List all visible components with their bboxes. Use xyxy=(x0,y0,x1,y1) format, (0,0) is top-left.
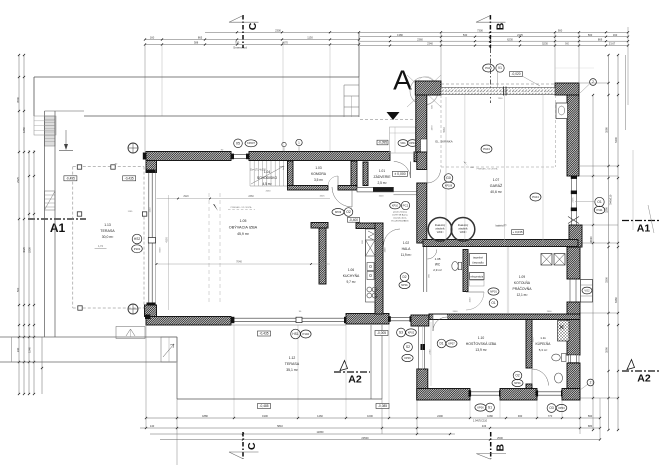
svg-text:1.03: 1.03 xyxy=(315,166,321,170)
svg-text:KOTOLŇA: KOTOLŇA xyxy=(514,281,531,285)
svg-text:2,9 m²: 2,9 m² xyxy=(433,268,442,272)
svg-text:KÚPEĽŇA: KÚPEĽŇA xyxy=(536,341,552,346)
svg-text:D1: D1 xyxy=(439,342,443,346)
entry mat xyxy=(357,187,394,192)
svg-text:4590: 4590 xyxy=(166,237,169,243)
svg-text:WC: WC xyxy=(435,263,441,267)
svg-text:1.04: 1.04 xyxy=(264,170,270,174)
svg-text:EL. SKRINKA: EL. SKRINKA xyxy=(435,140,452,144)
svg-text:2300: 2300 xyxy=(275,28,281,32)
svg-text:500: 500 xyxy=(16,287,20,292)
svg-text:piestra Snowa: piestra Snowa xyxy=(393,211,408,214)
svg-text:HS2: HS2 xyxy=(134,237,140,241)
svg-text:KP06: KP06 xyxy=(404,356,411,360)
black triangle entry marker xyxy=(387,112,400,120)
right wall kotolna upper xyxy=(567,247,580,279)
svg-text:900: 900 xyxy=(558,28,563,32)
komora bottom wall xyxy=(288,186,329,191)
svg-text:45,9 m²: 45,9 m² xyxy=(237,232,250,236)
svg-text:A1: A1 xyxy=(50,221,66,235)
svg-text:1.13: 1.13 xyxy=(104,223,111,227)
svg-text:2360: 2360 xyxy=(417,37,423,41)
svg-text:D2: D2 xyxy=(402,275,406,279)
bathroom sink xyxy=(555,373,563,383)
wall: entry right corner piece xyxy=(414,152,423,162)
labels D2 NP01 hala xyxy=(400,273,409,282)
komora right wall xyxy=(351,161,357,186)
svg-text:A2: A2 xyxy=(637,373,651,385)
svg-text:Smerosud: Smerosud xyxy=(233,46,247,50)
svg-text:TERASA: TERASA xyxy=(285,362,300,366)
svg-text:680: 680 xyxy=(588,424,593,428)
leader circle 1b xyxy=(296,139,302,145)
svg-text:1000: 1000 xyxy=(367,414,373,418)
svg-text:B: B xyxy=(495,444,507,452)
svg-text:2050: 2050 xyxy=(420,207,422,213)
svg-text:O2: O2 xyxy=(515,374,519,378)
labels O1 P111 right xyxy=(595,197,604,206)
svg-text:05: 05 xyxy=(236,142,240,146)
front door leaf and swing xyxy=(389,153,391,162)
svg-text:2,5 m²: 2,5 m² xyxy=(377,181,386,185)
bottom wall segment A xyxy=(417,389,470,401)
svg-text:GARÁŽ: GARÁŽ xyxy=(490,183,503,188)
wc door arc xyxy=(427,250,437,260)
kitchen top wall bar xyxy=(356,223,383,229)
P104 circle b xyxy=(530,193,541,201)
bottom dimension chain xyxy=(146,417,600,419)
ground line long xyxy=(0,336,177,338)
svg-text:1990: 1990 xyxy=(385,247,387,253)
svg-text:1.02: 1.02 xyxy=(403,241,409,245)
door kitchen-hala arc xyxy=(384,229,401,246)
svg-text:4025: 4025 xyxy=(22,247,26,253)
svg-text:KUCHYŇA: KUCHYŇA xyxy=(343,274,360,278)
svg-text:2325: 2325 xyxy=(16,177,20,183)
section marker A2 inner xyxy=(334,371,370,373)
svg-text:zásobník: zásobník xyxy=(435,229,445,231)
svg-text:1900: 1900 xyxy=(547,311,553,313)
hostovska bottom-left corner wall xyxy=(417,369,428,400)
svg-text:14630: 14630 xyxy=(589,236,593,244)
steps left of terrace xyxy=(161,337,177,362)
label 05 KP207 xyxy=(234,139,243,148)
section marker C bottom xyxy=(242,432,244,459)
terrace 1.12 outline xyxy=(176,337,178,399)
garage top-right pillar xyxy=(555,83,579,95)
svg-text:V200 l: V200 l xyxy=(460,232,467,234)
section marker A1 left xyxy=(28,218,86,220)
column circle bottom xyxy=(128,304,138,314)
svg-text:KP06: KP06 xyxy=(477,405,484,409)
svg-text:750: 750 xyxy=(235,41,240,45)
svg-text:1600: 1600 xyxy=(379,196,385,198)
svg-text:1130: 1130 xyxy=(307,36,313,40)
leader 2 top right xyxy=(590,79,597,86)
svg-text:bivalentný: bivalentný xyxy=(458,224,469,227)
svg-text:2400: 2400 xyxy=(453,311,459,313)
elevation -0,485 xyxy=(258,404,271,409)
garage left wall lower xyxy=(417,183,427,243)
svg-text:7300: 7300 xyxy=(498,98,504,100)
stove burners xyxy=(367,287,372,292)
svg-text:-0,435: -0,435 xyxy=(125,176,134,180)
left outer wall strip xyxy=(45,116,56,146)
svg-text:3500: 3500 xyxy=(16,97,20,103)
svg-text:3590: 3590 xyxy=(605,347,609,353)
svg-text:2840: 2840 xyxy=(323,257,325,263)
svg-text:V200 l: V200 l xyxy=(437,232,444,234)
svg-text:1.11: 1.11 xyxy=(540,336,546,340)
svg-text:500: 500 xyxy=(588,33,593,37)
svg-text:1970: 1970 xyxy=(432,125,434,131)
svg-text:30,0 m²: 30,0 m² xyxy=(102,235,114,239)
exterior steps right of roofline xyxy=(344,84,359,86)
rekuperacia box xyxy=(470,273,485,280)
svg-text:čerpadlo: čerpadlo xyxy=(472,261,484,265)
svg-text:5230: 5230 xyxy=(542,42,548,46)
svg-text:40,6 m²: 40,6 m² xyxy=(490,190,502,194)
svg-text:2780: 2780 xyxy=(430,349,432,355)
svg-text:13,9 m²: 13,9 m² xyxy=(475,348,487,352)
svg-text:VO2: VO2 xyxy=(584,288,590,292)
svg-text:KP10: KP10 xyxy=(392,204,399,207)
svg-text:O1: O1 xyxy=(491,301,495,305)
door D2 arc xyxy=(532,369,549,386)
svg-text:C: C xyxy=(246,442,258,450)
svg-text:11,9 m²: 11,9 m² xyxy=(401,253,412,257)
label VD1 KP04 xyxy=(398,140,408,147)
svg-text:4670: 4670 xyxy=(282,41,288,45)
bottom strip wall xyxy=(429,314,580,320)
left dimension chain xyxy=(18,55,20,394)
garage bottom wall xyxy=(423,240,578,247)
VO2 door box xyxy=(581,280,593,303)
svg-text:HOSŤOVSKÁ IZBA: HOSŤOVSKÁ IZBA xyxy=(466,341,497,346)
svg-text:+ 0,035: + 0,035 xyxy=(512,230,522,234)
svg-text:1.94(7)C110: 1.94(7)C110 xyxy=(473,419,488,423)
kitchen appliance strip xyxy=(366,229,376,302)
svg-text:240: 240 xyxy=(16,347,20,352)
wall: kitchen bottom xyxy=(346,314,389,325)
HS1 sliding door opening xyxy=(234,317,346,319)
svg-text:1380: 1380 xyxy=(397,33,403,37)
top dimension chain xyxy=(205,31,628,33)
svg-text:KP03: KP03 xyxy=(558,406,565,410)
svg-text:590: 590 xyxy=(588,414,593,418)
svg-text:2: 2 xyxy=(590,381,592,385)
labels KP10 PC1 xyxy=(390,202,401,209)
svg-text:KOMORA: KOMORA xyxy=(311,172,327,176)
svg-text:-0,005: -0,005 xyxy=(377,331,386,335)
svg-text:± 0,000: ± 0,000 xyxy=(394,172,405,176)
roof overhang outline upper left xyxy=(34,76,359,78)
svg-text:bivalentný: bivalentný xyxy=(435,224,446,227)
svg-text:2490: 2490 xyxy=(437,414,443,418)
svg-text:O1: O1 xyxy=(597,200,602,204)
svg-text:O3: O3 xyxy=(549,406,554,410)
exterior ladder left xyxy=(45,191,56,210)
svg-text:1560: 1560 xyxy=(470,297,472,303)
svg-text:-0,400: -0,400 xyxy=(349,218,358,222)
hostovska left wall thin xyxy=(418,326,420,371)
svg-text:P101: P101 xyxy=(134,247,141,251)
svg-text:11950: 11950 xyxy=(316,430,324,434)
svg-text:1250: 1250 xyxy=(22,127,26,133)
kitchen right wall xyxy=(375,223,383,314)
right wall kotolna lower xyxy=(567,302,580,314)
svg-text:KP207: KP207 xyxy=(247,141,255,145)
svg-text:KP04: KP04 xyxy=(409,141,416,145)
wc right wall xyxy=(463,250,468,292)
svg-text:1.12: 1.12 xyxy=(289,356,296,360)
svg-text:5,3 m²: 5,3 m² xyxy=(539,348,548,352)
dimension extension lines xyxy=(358,32,360,77)
svg-text:TERASA: TERASA xyxy=(100,229,115,233)
svg-text:930: 930 xyxy=(518,414,523,418)
labels P103 V1 xyxy=(483,64,495,72)
svg-text:2: 2 xyxy=(592,80,594,84)
garage interior vert dim xyxy=(445,97,447,238)
svg-text:1.10: 1.10 xyxy=(478,336,485,340)
svg-text:P104: P104 xyxy=(483,147,490,151)
svg-text:S2: S2 xyxy=(406,345,410,349)
svg-text:zásobník: zásobník xyxy=(458,229,468,231)
svg-text:O2: O2 xyxy=(346,210,351,214)
svg-text:V1: V1 xyxy=(498,66,502,70)
bottom wall segment B xyxy=(500,389,537,401)
garage top-left pillar xyxy=(415,81,441,95)
svg-text:2630: 2630 xyxy=(266,191,272,193)
section marker B top xyxy=(489,15,491,48)
svg-text:C: C xyxy=(247,22,259,30)
section marker B bottom xyxy=(490,432,492,459)
svg-text:4050: 4050 xyxy=(450,390,456,392)
svg-text:-0,485: -0,485 xyxy=(259,404,268,408)
svg-text:770: 770 xyxy=(548,414,553,418)
svg-text:OBÝVACIA IZBA: OBÝVACIA IZBA xyxy=(229,226,258,230)
komora door arc xyxy=(337,176,339,186)
equipment squares kotolna xyxy=(541,254,552,266)
svg-text:tepelné: tepelné xyxy=(473,256,483,260)
wall: living room left bottom corner xyxy=(145,305,157,317)
labels HS1 P102 xyxy=(291,329,301,339)
detail swirl circles xyxy=(410,77,438,105)
svg-text:388: 388 xyxy=(194,41,199,45)
right wall bathroom upper xyxy=(567,320,580,356)
svg-text:530: 530 xyxy=(463,33,468,37)
svg-text:-0,495: -0,495 xyxy=(66,176,75,180)
svg-text:2175: 2175 xyxy=(517,33,523,37)
svg-text:1460: 1460 xyxy=(317,414,323,418)
svg-text:KP09: KP09 xyxy=(335,210,342,214)
labels S3 KP02 xyxy=(397,328,406,337)
door D1 arc xyxy=(432,314,434,331)
svg-text:5400: 5400 xyxy=(614,137,618,143)
P104 circle a xyxy=(481,145,492,153)
svg-text:35,1 m²: 35,1 m² xyxy=(286,368,298,372)
el.skrinka niche xyxy=(421,139,427,152)
svg-text:PRIEVAN - VZ CESTA: PRIEVAN - VZ CESTA xyxy=(231,206,252,209)
wall hostovska-kupelna xyxy=(526,320,532,369)
svg-text:S1: S1 xyxy=(488,406,492,410)
svg-text:23,67: 23,67 xyxy=(609,42,616,46)
bathroom toilet xyxy=(552,354,561,361)
column circle top xyxy=(128,143,138,153)
svg-text:23500: 23500 xyxy=(361,436,369,440)
svg-text:P102: P102 xyxy=(303,332,310,336)
svg-text:5810: 5810 xyxy=(277,424,283,428)
svg-text:7940/110: 7940/110 xyxy=(609,194,613,205)
terrace 1.13 dashed boundary xyxy=(73,166,144,168)
svg-text:G0: G0 xyxy=(446,176,451,180)
wall: top wall to entry xyxy=(249,152,390,161)
light guide near top-right pillar xyxy=(555,67,594,69)
svg-text:LUTE SE Aurna: LUTE SE Aurna xyxy=(392,214,408,217)
svg-text:160: 160 xyxy=(150,36,155,40)
kitchen island T-wall xyxy=(311,223,328,229)
svg-text:1525: 1525 xyxy=(533,337,535,343)
door 05 gap jambs xyxy=(231,154,249,156)
labels O2 NP01 xyxy=(513,371,522,380)
svg-text:1.07: 1.07 xyxy=(493,178,500,182)
door O2 living-hala xyxy=(351,187,353,207)
zadverie left wall xyxy=(363,162,368,186)
svg-text:-0,095: -0,095 xyxy=(378,141,387,145)
leader circle 1a xyxy=(282,142,286,146)
svg-text:1.08: 1.08 xyxy=(435,257,441,261)
door arc into kotolna xyxy=(466,291,484,293)
labels KP06 S1 bottom xyxy=(475,404,486,411)
svg-text:1880: 1880 xyxy=(202,414,208,418)
svg-text:2250: 2250 xyxy=(28,247,32,253)
svg-text:NP01: NP01 xyxy=(401,283,408,287)
svg-text:1080: 1080 xyxy=(487,414,493,418)
svg-text:PC1: PC1 xyxy=(403,204,409,208)
svg-text:HS1: HS1 xyxy=(292,332,298,336)
svg-text:P111: P111 xyxy=(596,208,603,212)
dashed airflow line xyxy=(228,209,255,211)
svg-text:1.06: 1.06 xyxy=(348,268,354,272)
garage left wall upper xyxy=(416,95,427,152)
entry arrow left xyxy=(65,130,67,147)
svg-text:1,74: 1,74 xyxy=(98,245,103,248)
svg-text:A2: A2 xyxy=(348,374,362,386)
svg-text:865: 865 xyxy=(198,36,203,40)
svg-text:1200: 1200 xyxy=(572,142,574,148)
garage right wall with niche xyxy=(567,95,579,176)
svg-text:6460: 6460 xyxy=(614,297,618,303)
garage right window section xyxy=(571,177,573,225)
svg-text:3,5 m²: 3,5 m² xyxy=(314,178,323,182)
svg-text:5980: 5980 xyxy=(443,127,446,133)
svg-text:2175: 2175 xyxy=(573,197,575,203)
svg-text:3425: 3425 xyxy=(320,196,326,198)
svg-text:6000: 6000 xyxy=(160,247,162,253)
label KP09 O2 xyxy=(332,209,344,216)
O1 circle xyxy=(489,299,498,308)
S3 window opening xyxy=(389,316,411,318)
svg-text:2500: 2500 xyxy=(497,436,503,440)
svg-text:2340: 2340 xyxy=(427,42,433,46)
svg-text:SCHODISKO: SCHODISKO xyxy=(257,176,278,180)
svg-text:batéria??: batéria?? xyxy=(496,224,507,228)
svg-text:KP02: KP02 xyxy=(408,330,415,334)
porch canopy outline xyxy=(390,127,416,153)
svg-text:4,5 m²: 4,5 m² xyxy=(262,182,271,186)
buffer tanks xyxy=(428,218,452,242)
wc left wall thin xyxy=(423,247,425,292)
section marker A1 right xyxy=(622,220,660,222)
elevation -0,435 xyxy=(123,176,136,181)
garage left wall mid + G0 door gap xyxy=(417,152,427,170)
bottom wall segment C xyxy=(562,389,580,401)
svg-text:B: B xyxy=(494,22,506,30)
wc toilet xyxy=(452,262,458,271)
svg-text:A1: A1 xyxy=(637,223,651,235)
elevation -0,495 xyxy=(64,176,77,181)
labels G0 KP108 xyxy=(444,174,453,183)
svg-text:9,7 m²: 9,7 m² xyxy=(346,280,355,284)
svg-text:433: 433 xyxy=(482,424,487,428)
svg-text:1.05: 1.05 xyxy=(240,219,247,223)
svg-text:1.09: 1.09 xyxy=(519,275,525,279)
svg-text:1.01: 1.01 xyxy=(379,169,385,173)
svg-text:1080: 1080 xyxy=(518,390,524,392)
svg-text:2920: 2920 xyxy=(183,195,189,198)
labels O3 KP03 xyxy=(547,404,556,413)
svg-text:2360: 2360 xyxy=(248,195,254,198)
svg-text:PRÁČOVŇA: PRÁČOVŇA xyxy=(512,286,532,291)
elevation -0,005 xyxy=(375,331,388,336)
svg-text:1540: 1540 xyxy=(28,347,32,353)
zadverie step lines xyxy=(394,190,418,192)
interior dim line living xyxy=(157,263,331,265)
bathroom window gap xyxy=(569,355,580,363)
svg-text:PRIEVAN - VZ CESTA: PRIEVAN - VZ CESTA xyxy=(477,168,498,171)
svg-text:-0,020: -0,020 xyxy=(511,72,520,76)
S1 window xyxy=(470,391,500,393)
svg-text:NP01: NP01 xyxy=(490,289,497,293)
svg-text:1900: 1900 xyxy=(262,414,268,418)
NP01 circle xyxy=(488,288,499,295)
svg-text:A: A xyxy=(393,65,412,96)
tepelne cerpadlo box xyxy=(470,254,487,266)
svg-text:12,1 m²: 12,1 m² xyxy=(517,293,528,297)
svg-text:rekuperácia: rekuperácia xyxy=(470,275,483,278)
svg-text:900: 900 xyxy=(565,43,570,46)
svg-text:7040: 7040 xyxy=(236,260,242,264)
svg-text:160: 160 xyxy=(613,33,618,37)
elevation -0,085 xyxy=(376,404,389,409)
label KP06 xyxy=(402,354,413,361)
kotolna divider line xyxy=(506,247,508,313)
elevation -0,435 bottom xyxy=(258,331,271,336)
wall: living room top-left segment xyxy=(146,152,231,161)
small steps top-left xyxy=(34,116,56,135)
labels HS2 P101 xyxy=(132,234,142,244)
right wall bathroom lower xyxy=(567,363,580,399)
living room left wall: HS2 window xyxy=(148,173,150,306)
svg-text:1250: 1250 xyxy=(150,207,152,213)
shower xyxy=(558,321,570,342)
section marker C top xyxy=(242,15,244,48)
svg-text:869: 869 xyxy=(598,37,603,41)
svg-text:KP07: KP07 xyxy=(448,341,455,345)
G0 door arc xyxy=(426,170,428,184)
svg-text:stounds ufvor-: stounds ufvor- xyxy=(393,217,407,220)
svg-text:6230: 6230 xyxy=(507,37,513,41)
